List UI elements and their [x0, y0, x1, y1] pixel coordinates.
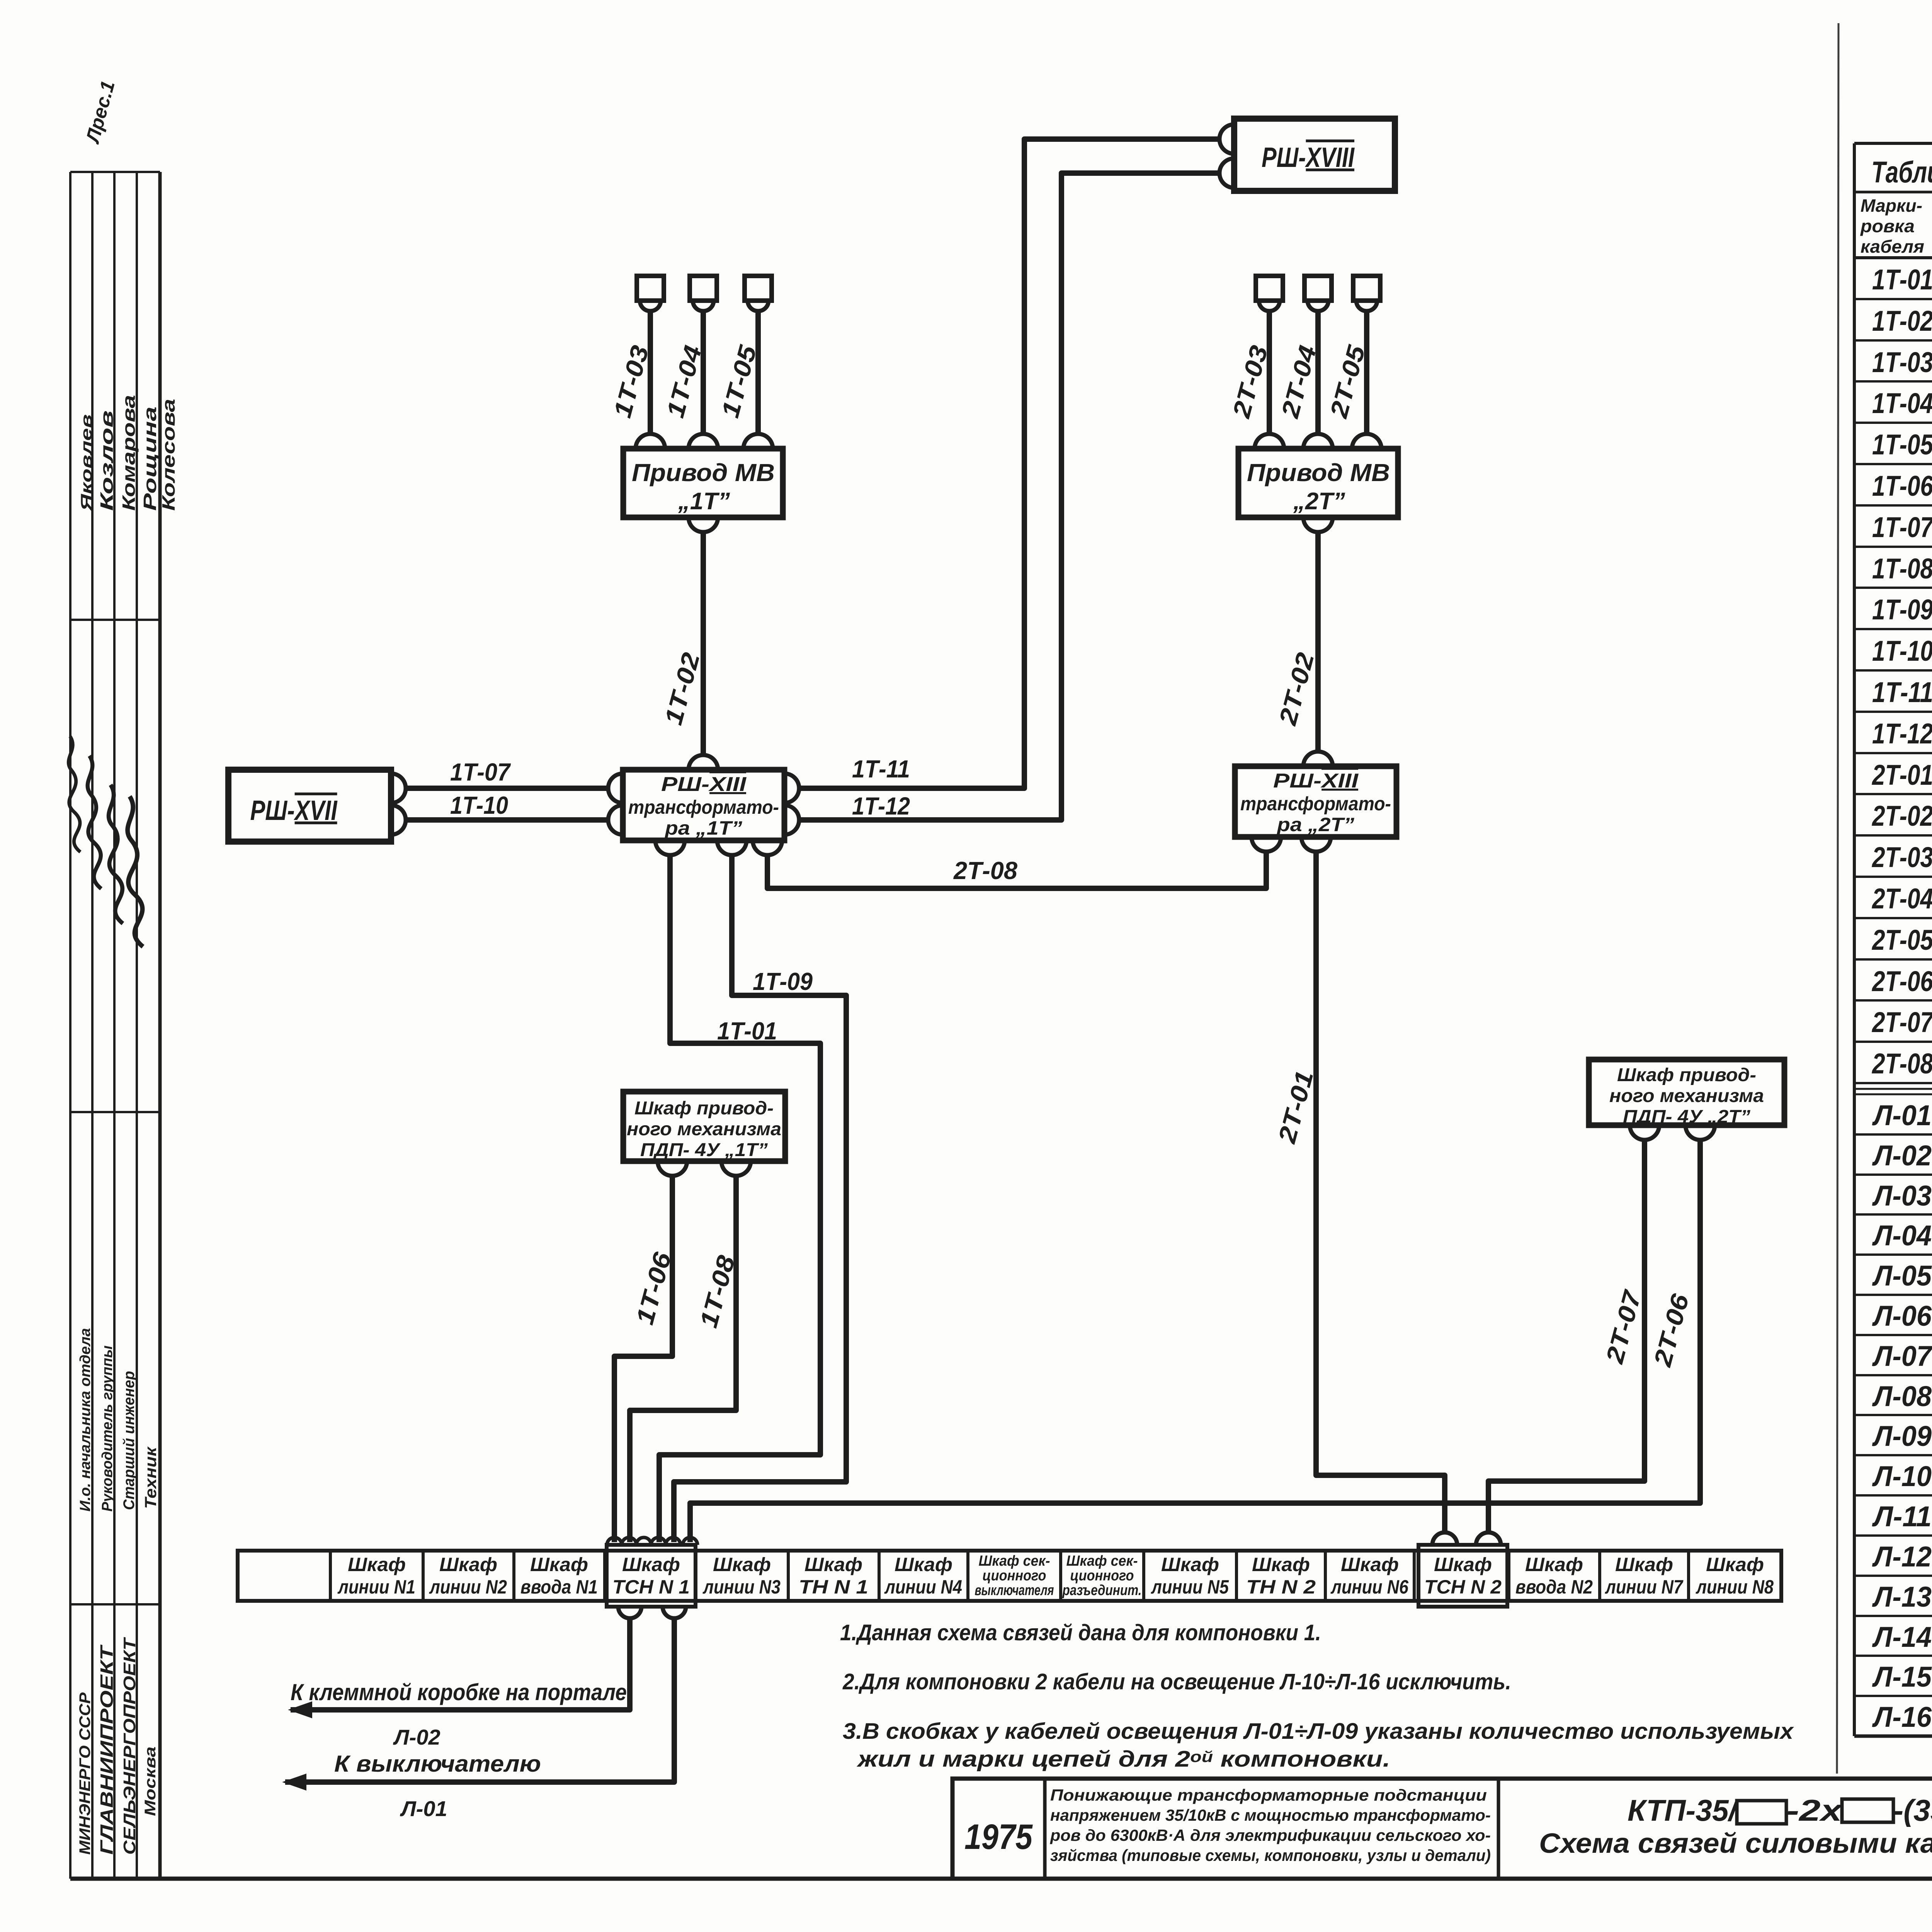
- svg-text:1Т-06: 1Т-06: [1872, 470, 1932, 502]
- table row 1Т-10: [1854, 669, 1932, 672]
- svg-text:2Т-08: 2Т-08: [953, 857, 1017, 884]
- svg-text:Шкаф: Шкаф: [1341, 1554, 1399, 1575]
- svg-text:СЕЛЬЭНЕРГОПРОЕКТ: СЕЛЬЭНЕРГОПРОЕКТ: [120, 1637, 139, 1855]
- svg-text:линии N2: линии N2: [429, 1576, 507, 1598]
- svg-text:ционного: ционного: [1070, 1568, 1134, 1584]
- svg-text:Л-05: Л-05: [1872, 1260, 1932, 1292]
- frame bottom border: [70, 1877, 1932, 1881]
- wire 2Т-08: [767, 852, 1266, 888]
- table row Л-09: [1854, 1454, 1932, 1456]
- svg-text:Л-02: Л-02: [393, 1725, 440, 1749]
- svg-text:1Т-10: 1Т-10: [450, 791, 508, 819]
- svg-text:1Т-01: 1Т-01: [1872, 264, 1932, 296]
- svg-text:КТП-35/: КТП-35/: [1628, 1793, 1740, 1827]
- svg-text:ровка: ровка: [1860, 216, 1915, 236]
- box РШ-XIII трансформатора 2Т: [1235, 766, 1396, 837]
- svg-text:Л-07: Л-07: [1872, 1340, 1932, 1372]
- svg-text:Шкаф: Шкаф: [348, 1554, 406, 1575]
- svg-text:Шкаф: Шкаф: [1525, 1554, 1583, 1575]
- svg-text:1Т-11: 1Т-11: [852, 755, 910, 783]
- wire 1Т-08: [630, 1176, 736, 1542]
- svg-text:жил и марки цепей для 2ой ко: жил и марки цепей для 2ой компоновки.: [856, 1747, 1390, 1772]
- table row Л-03: [1854, 1213, 1932, 1216]
- svg-text:линии N7: линии N7: [1605, 1576, 1684, 1598]
- table row 2Т-04: [1854, 917, 1932, 919]
- svg-text:К выключателю: К выключателю: [334, 1751, 541, 1777]
- svg-text:1Т-03: 1Т-03: [1872, 346, 1932, 378]
- wire 1Т-10: [406, 817, 608, 823]
- svg-text:РШ-ХVII: РШ-ХVII: [250, 795, 338, 826]
- stamp column frame: [69, 172, 71, 1879]
- scan seam line: [1837, 23, 1838, 1774]
- table row 2Т-01: [1854, 793, 1932, 795]
- cabinet cell ТСН N2 (raised): [1418, 1545, 1507, 1607]
- svg-text:Л-11: Л-11: [1872, 1500, 1932, 1532]
- svg-text:1Т-02: 1Т-02: [1872, 305, 1932, 337]
- svg-text:ПДП- 4У „1Т”: ПДП- 4У „1Т”: [640, 1140, 768, 1160]
- table row Л-11: [1854, 1534, 1932, 1537]
- svg-text:1Т-12: 1Т-12: [852, 792, 910, 820]
- svg-text:линии N1: линии N1: [337, 1576, 415, 1598]
- wire 1Т-05: [755, 311, 761, 434]
- svg-text:2Т-08: 2Т-08: [1871, 1048, 1932, 1080]
- wire 2Т-01: [1316, 852, 1445, 1531]
- svg-text:ГЛАВНИИПРОЕКТ: ГЛАВНИИПРОЕКТ: [97, 1644, 117, 1855]
- wire 2Т-04: [1315, 311, 1321, 434]
- svg-text:3.В скобках у кабелей освеще: 3.В скобках у кабелей освещения Л-01÷Л-0…: [843, 1719, 1794, 1744]
- svg-text:Шкаф привод-: Шкаф привод-: [634, 1098, 774, 1119]
- svg-text:зяйства (типовые схемы, компон: зяйства (типовые схемы, компоновки, узлы…: [1050, 1846, 1491, 1864]
- svg-text:1Т-10: 1Т-10: [1872, 635, 1932, 667]
- svg-text:разъединит.: разъединит.: [1062, 1582, 1142, 1599]
- svg-text:Таблица связей, выполненных: Таблица связей, выполненных силовыми каб…: [1871, 155, 1932, 189]
- svg-text:РШ-ХVIII: РШ-ХVIII: [1262, 142, 1355, 173]
- svg-text:Яковлев: Яковлев: [78, 414, 95, 511]
- table row Л-10: [1854, 1494, 1932, 1497]
- svg-text:2Т-06: 2Т-06: [1871, 965, 1932, 997]
- svg-text:ного механизма: ного механизма: [1609, 1086, 1764, 1106]
- svg-text:Л-02: Л-02: [1872, 1139, 1932, 1172]
- svg-text:Старший инженер: Старший инженер: [121, 1371, 138, 1510]
- wire 1Т-01: [659, 855, 820, 1542]
- svg-text:Л-14: Л-14: [1872, 1621, 1932, 1653]
- svg-text:2Т-05: 2Т-05: [1871, 924, 1932, 956]
- svg-text:И.о. начальника отдела: И.о. начальника отдела: [77, 1328, 94, 1512]
- table row 1Т-12: [1854, 752, 1932, 754]
- table row Л-15: [1854, 1695, 1932, 1697]
- svg-text:Шкаф: Шкаф: [1252, 1554, 1310, 1575]
- table row 2Т-05: [1854, 958, 1932, 961]
- svg-text:Шкаф: Шкаф: [1706, 1554, 1764, 1575]
- svg-text:1975: 1975: [964, 1817, 1033, 1857]
- svg-text:Рощина: Рощина: [140, 406, 160, 511]
- svg-text:Шкаф: Шкаф: [530, 1554, 588, 1575]
- svg-text:Привод МВ: Привод МВ: [632, 459, 775, 486]
- svg-text:Шкаф сек-: Шкаф сек-: [1066, 1553, 1138, 1569]
- cabinet row: [238, 1551, 1781, 1601]
- svg-text:2Т-07: 2Т-07: [1871, 1006, 1932, 1038]
- wire 1Т-04: [701, 311, 706, 434]
- terminal 1Т-05: [745, 276, 772, 301]
- svg-text:линии N5: линии N5: [1151, 1576, 1229, 1598]
- box Привод МВ 1Т: [623, 449, 783, 517]
- svg-text:РШ-ХIII: РШ-ХIII: [1273, 770, 1359, 792]
- table row 1Т-07: [1854, 546, 1932, 548]
- svg-text:„2Т”: „2Т”: [1293, 488, 1345, 515]
- svg-text:Техник: Техник: [141, 1446, 160, 1509]
- svg-text:ввода N1: ввода N1: [520, 1576, 598, 1598]
- svg-text:ного механизма: ного механизма: [627, 1119, 781, 1139]
- svg-text:линии N8: линии N8: [1696, 1576, 1774, 1598]
- svg-text:1Т-01: 1Т-01: [717, 1017, 777, 1045]
- table row 1Т-08: [1854, 587, 1932, 589]
- svg-text:-2х: -2х: [1786, 1793, 1844, 1827]
- svg-text:ТСН N 1: ТСН N 1: [612, 1576, 690, 1598]
- wire 2Т-02: [1315, 532, 1321, 752]
- table row Л-01: [1854, 1133, 1932, 1136]
- table row 1Т-09: [1854, 628, 1932, 630]
- svg-text:трансформато-: трансформато-: [1240, 793, 1391, 815]
- stamp signatures: [51, 736, 100, 852]
- svg-text:„1Т”: „1Т”: [678, 488, 730, 515]
- svg-text:Л-16: Л-16: [1872, 1701, 1932, 1733]
- svg-text:Л-15: Л-15: [1872, 1661, 1932, 1693]
- svg-text:Схема связей силовыми кабел: Схема связей силовыми кабелями: [1539, 1828, 1932, 1859]
- svg-text:2Т-03: 2Т-03: [1871, 841, 1932, 873]
- svg-text:ра „1Т”: ра „1Т”: [664, 817, 742, 839]
- wire 1Т-12: [799, 173, 1219, 820]
- table row Л-07: [1854, 1374, 1932, 1376]
- table row 2Т-03: [1854, 876, 1932, 878]
- svg-text:Л-04: Л-04: [1872, 1219, 1932, 1252]
- svg-text:1Т-07: 1Т-07: [1872, 511, 1932, 543]
- wire 2Т-07: [1488, 1140, 1645, 1531]
- svg-text:линии N4: линии N4: [884, 1576, 962, 1598]
- table section divider: [1854, 1082, 1932, 1084]
- box Привод МВ 2Т: [1238, 449, 1398, 517]
- table row Л-13: [1854, 1615, 1932, 1617]
- svg-text:2Т-01: 2Т-01: [1871, 759, 1932, 791]
- svg-text:линии N3: линии N3: [702, 1576, 781, 1598]
- svg-text:Л-13: Л-13: [1872, 1581, 1932, 1613]
- svg-text:МИНЭНЕРГО СССР: МИНЭНЕРГО СССР: [77, 1692, 94, 1855]
- box Шкаф приводного механизма ПДП-4У 1Т: [623, 1092, 785, 1161]
- svg-text:К клеммной коробке на портале: К клеммной коробке на портале: [291, 1679, 627, 1705]
- svg-text:1.Данная схема связей дана дл: 1.Данная схема связей дана для компоновк…: [840, 1620, 1321, 1645]
- table row Л-08: [1854, 1414, 1932, 1416]
- table row 2Т-07: [1854, 1041, 1932, 1043]
- svg-text:кабеля: кабеля: [1861, 236, 1924, 257]
- cable table frame: [1854, 142, 1932, 145]
- wire 1Т-11: [799, 139, 1219, 788]
- svg-text:Шкаф привод-: Шкаф привод-: [1617, 1065, 1756, 1085]
- wire 2Т-06: [690, 1140, 1700, 1542]
- svg-text:ционного: ционного: [983, 1568, 1046, 1584]
- svg-text:Марки-: Марки-: [1861, 196, 1922, 216]
- svg-text:Шкаф: Шкаф: [622, 1554, 680, 1575]
- box РШ-XIII трансформатора 1Т: [623, 770, 784, 840]
- svg-text:Колесова: Колесова: [158, 399, 179, 511]
- terminal 1Т-03: [637, 276, 664, 301]
- svg-text:1Т-07: 1Т-07: [450, 758, 511, 786]
- svg-text:Л-01: Л-01: [400, 1796, 447, 1821]
- svg-text:1Т-05: 1Т-05: [1872, 429, 1932, 461]
- table row Л-06: [1854, 1334, 1932, 1336]
- svg-text:2Т-02: 2Т-02: [1871, 800, 1932, 832]
- svg-text:Шкаф: Шкаф: [713, 1554, 771, 1575]
- cabinet cell ТСН N1 (raised): [607, 1545, 696, 1607]
- box РШ-XVIII: [1234, 119, 1395, 191]
- terminal 2Т-05: [1353, 276, 1380, 301]
- svg-text:Л-03: Л-03: [1872, 1180, 1932, 1212]
- wire Л-01 к выключателю: [285, 1618, 674, 1782]
- svg-text:ра „2Т”: ра „2Т”: [1276, 814, 1354, 835]
- svg-text:1Т-04: 1Т-04: [1872, 387, 1932, 419]
- svg-text:Л-10: Л-10: [1872, 1460, 1932, 1492]
- table row 2Т-06: [1854, 999, 1932, 1002]
- svg-text:ТСН N 2: ТСН N 2: [1424, 1576, 1502, 1598]
- svg-text:ПДП- 4У „2Т”: ПДП- 4У „2Т”: [1623, 1107, 1750, 1127]
- svg-text:Шкаф: Шкаф: [895, 1554, 952, 1575]
- svg-text:Шкаф: Шкаф: [1434, 1554, 1492, 1575]
- wire 2Т-05: [1364, 311, 1369, 434]
- wire 1Т-07: [406, 786, 608, 791]
- svg-text:1Т-09: 1Т-09: [753, 968, 813, 995]
- table row 1Т-01: [1854, 298, 1932, 300]
- table row Л-04: [1854, 1253, 1932, 1256]
- box РШ-XVII: [228, 770, 391, 842]
- wire 2Т-03: [1267, 311, 1272, 434]
- svg-text:-(35-9): -(35-9): [1893, 1793, 1932, 1827]
- svg-text:трансформато-: трансформато-: [628, 796, 779, 818]
- svg-text:ТН N 1: ТН N 1: [799, 1576, 868, 1598]
- terminal 2Т-04: [1304, 276, 1332, 301]
- table row 2Т-02: [1854, 834, 1932, 837]
- svg-text:линии N6: линии N6: [1330, 1576, 1409, 1598]
- svg-text:Козлов: Козлов: [97, 410, 117, 511]
- table row Л-05: [1854, 1294, 1932, 1296]
- svg-text:Л-12: Л-12: [1872, 1541, 1932, 1573]
- svg-text:Шкаф: Шкаф: [1615, 1554, 1673, 1575]
- svg-text:ТН N 2: ТН N 2: [1246, 1576, 1316, 1598]
- wire 1Т-03: [648, 311, 653, 434]
- wire 1Т-06: [614, 1176, 672, 1542]
- svg-text:1Т-11: 1Т-11: [1872, 676, 1932, 708]
- table row 1Т-05: [1854, 463, 1932, 465]
- svg-text:ров до 6300кВ·А для электрифик: ров до 6300кВ·А для электрификации сельс…: [1050, 1826, 1491, 1844]
- svg-text:Руководитель группы: Руководитель группы: [99, 1345, 116, 1512]
- table row Л-12: [1854, 1575, 1932, 1577]
- svg-text:РШ-ХIII: РШ-ХIII: [661, 773, 747, 796]
- svg-text:Шкаф: Шкаф: [804, 1554, 862, 1575]
- svg-text:Шкаф сек-: Шкаф сек-: [979, 1553, 1050, 1569]
- svg-text:Л-06: Л-06: [1872, 1300, 1932, 1332]
- svg-text:1Т-08: 1Т-08: [1872, 553, 1932, 585]
- table row 1Т-04: [1854, 422, 1932, 424]
- terminal 1Т-04: [690, 276, 717, 301]
- wire 1Т-09: [674, 855, 846, 1542]
- table row 1Т-03: [1854, 380, 1932, 383]
- svg-text:Комарова: Комарова: [119, 395, 139, 511]
- table row Л-14: [1854, 1655, 1932, 1657]
- wire 1Т-02: [701, 532, 706, 755]
- svg-text:выключателя: выключателя: [975, 1582, 1054, 1599]
- table row 1Т-06: [1854, 504, 1932, 507]
- svg-text:Л-08: Л-08: [1872, 1380, 1932, 1412]
- svg-text:Москва: Москва: [142, 1747, 159, 1816]
- svg-text:2.Для компоновки 2 кабели на: 2.Для компоновки 2 кабели на освещение Л…: [842, 1669, 1511, 1694]
- svg-text:Понижающие трансформаторные: Понижающие трансформаторные подстанции: [1050, 1786, 1487, 1804]
- box Шкаф приводного механизма ПДП-4У 2Т: [1589, 1060, 1784, 1125]
- svg-text:2Т-04: 2Т-04: [1871, 883, 1932, 915]
- svg-text:Шкаф: Шкаф: [1161, 1554, 1219, 1575]
- terminal 2Т-03: [1256, 276, 1283, 301]
- svg-text:1Т-12: 1Т-12: [1872, 718, 1932, 750]
- svg-text:1Т-09: 1Т-09: [1872, 594, 1932, 626]
- title block: [952, 1779, 1932, 1879]
- svg-text:Шкаф: Шкаф: [439, 1554, 497, 1575]
- svg-text:напряжением 35/10кВ с мощность: напряжением 35/10кВ с мощностью трансфор…: [1050, 1806, 1491, 1824]
- table row 1Т-02: [1854, 339, 1932, 342]
- table row Л-02: [1854, 1173, 1932, 1176]
- svg-text:Привод МВ: Привод МВ: [1247, 459, 1390, 486]
- svg-text:ввода N2: ввода N2: [1515, 1576, 1593, 1598]
- table row 1Т-11: [1854, 711, 1932, 713]
- wire Л-02 к клеммной коробке: [291, 1618, 630, 1710]
- svg-text:Л-01: Л-01: [1872, 1099, 1932, 1131]
- svg-text:Л-09: Л-09: [1872, 1420, 1932, 1452]
